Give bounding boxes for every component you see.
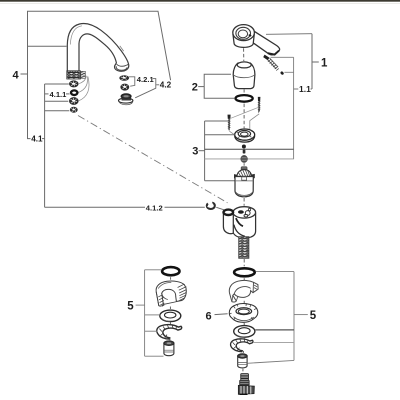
tick to ring A bbox=[45, 83, 69, 85]
label 4.2.1 bbox=[137, 75, 155, 84]
cartridge side ears bbox=[234, 174, 255, 179]
dash from 4.1.1 to o-ring B bbox=[66, 93, 70, 95]
label 1.1 bbox=[299, 84, 311, 94]
flange lower arc shading bbox=[237, 140, 245, 142]
horseshoe spacer left column (hatched) bbox=[156, 281, 186, 306]
washer right column bbox=[234, 326, 255, 338]
body side port opening bbox=[224, 210, 234, 215]
dash to label 4.2 bbox=[156, 84, 159, 86]
dashed axis shank to o-ring H bbox=[243, 259, 245, 266]
dome cap seam bbox=[233, 75, 254, 78]
label 5 right bbox=[310, 310, 317, 322]
pin bbox=[243, 150, 246, 154]
wire: label 4.1 to bracket 4.1 bbox=[42, 138, 45, 140]
wire light across (nut row) bbox=[205, 158, 294, 160]
o-ring under dome bbox=[236, 95, 253, 102]
cartridge body seam bbox=[235, 180, 253, 182]
handle ring inner ellipse bbox=[236, 27, 251, 39]
bracket 4 bottom corner to label 4.1 bbox=[28, 136, 31, 139]
label 3 bbox=[192, 146, 198, 158]
svg-text:6: 6 bbox=[206, 310, 212, 322]
bracket 5L bottom tick to cylinder bbox=[145, 355, 164, 357]
handle blade tip dark edge bbox=[268, 51, 279, 55]
wire screw left to flange bbox=[229, 131, 234, 134]
clip part 4.1.2 bbox=[207, 202, 215, 209]
cylinder seal holder right column bbox=[238, 354, 247, 368]
flange hole bbox=[241, 132, 249, 136]
wire clip to bracket 5R (light) bbox=[254, 341, 294, 343]
spout shading line left bbox=[70, 26, 82, 45]
tick washer to bracket 5L bbox=[145, 314, 161, 316]
spout end face inner lip bbox=[116, 66, 127, 70]
assembly arc from ring C bbox=[79, 77, 89, 101]
body elbow inner dark curve bbox=[236, 218, 243, 226]
wire screw right to flange bbox=[250, 114, 259, 131]
wire washer to bracket 5R (dark) bbox=[255, 329, 294, 331]
dashed axis clip to cylinder bbox=[169, 338, 171, 340]
screw 1.1 head bbox=[263, 55, 269, 61]
dash label 5L to bracket bbox=[136, 304, 145, 306]
label 6 bbox=[206, 310, 212, 322]
hose fitting barb top bbox=[241, 374, 249, 381]
wire screw head to bracket 1.1 bbox=[271, 56, 294, 58]
assembly arc from ring A bbox=[79, 74, 86, 83]
ring A (nut) bbox=[69, 80, 79, 87]
cartridge key slot bbox=[242, 177, 247, 180]
flange ring bottom rim bbox=[235, 136, 255, 143]
dashed axis clip to cylinder bbox=[242, 351, 244, 354]
dashed axis dome to o-ring bbox=[243, 89, 245, 93]
label 2 bbox=[192, 82, 198, 94]
cartridge dome hatched bbox=[237, 170, 252, 177]
label 4.2 bbox=[160, 81, 172, 90]
label 5 left bbox=[127, 300, 134, 312]
svg-text:2: 2 bbox=[192, 82, 198, 94]
label 2 dash bbox=[198, 86, 204, 88]
body top holes bbox=[238, 208, 251, 216]
tick to label 5R bbox=[294, 314, 308, 316]
label 4 bbox=[13, 69, 20, 81]
wire label 4.2.1 to bracket 4.2 bbox=[153, 78, 156, 80]
label 4 tick bbox=[21, 73, 28, 75]
ball detent bbox=[242, 145, 246, 149]
dome cap 2 top opening bbox=[237, 62, 251, 68]
washer left column bbox=[160, 310, 181, 321]
hose fitting collar bbox=[239, 380, 249, 386]
handle boss skirt bbox=[233, 34, 254, 48]
bracket 3 vertical bbox=[204, 121, 206, 181]
mounting nut 6 bbox=[229, 304, 257, 323]
spout thread band bbox=[67, 71, 86, 79]
bracket 5 right vertical bbox=[293, 272, 295, 361]
flange collar ellipse bbox=[238, 131, 250, 138]
assembly arc from o-ring B bbox=[79, 76, 88, 93]
dashed axis horseshoe to nut 6 bbox=[243, 301, 245, 304]
screw left shaft bbox=[228, 119, 231, 131]
svg-text:4.1: 4.1 bbox=[31, 135, 43, 144]
dashed axis horseshoe to washer bbox=[169, 307, 171, 310]
tick to cartridge bbox=[205, 180, 235, 182]
wire label 6 to nut bbox=[215, 313, 228, 316]
body top ellipse bbox=[233, 207, 256, 218]
tick to ring C bbox=[45, 100, 69, 102]
svg-text:5: 5 bbox=[310, 310, 317, 322]
spout tube silhouette bbox=[67, 23, 128, 71]
body side port cylinder bbox=[223, 212, 233, 233]
body elbow outer curve bbox=[234, 225, 245, 237]
cartridge stem bbox=[241, 166, 248, 172]
wire 4.1.2 horizontal left part bbox=[45, 206, 145, 208]
label 3 dash bbox=[199, 150, 205, 152]
body main cylinder bbox=[233, 213, 256, 238]
bracket 4.2.1 bbox=[129, 77, 135, 86]
svg-text:4.1.2: 4.1.2 bbox=[146, 203, 163, 212]
svg-text:1: 1 bbox=[321, 57, 328, 69]
flange face ticks bbox=[237, 131, 253, 138]
flange ring outer bbox=[235, 129, 255, 140]
wire connecting both screws bbox=[231, 107, 259, 118]
svg-text:3: 3 bbox=[192, 146, 198, 158]
dash-dot diagonal wire to body bbox=[78, 116, 228, 203]
tick o-ring H to bracket 5R bbox=[256, 271, 294, 273]
cartridge body bbox=[235, 177, 253, 197]
body shank threaded bbox=[239, 237, 249, 258]
o-ring H bbox=[234, 268, 255, 276]
label 4.1.1 bbox=[50, 90, 68, 99]
tick to flange bbox=[205, 134, 235, 136]
aerator G (4.2) bbox=[119, 94, 133, 105]
tick left o-ring to bracket 5L bbox=[145, 269, 162, 271]
c-clip left column bbox=[157, 325, 182, 339]
screw 1.1 tip bbox=[280, 71, 285, 76]
ring E (4.2.1 nut) bbox=[119, 75, 129, 81]
svg-text:1.1: 1.1 bbox=[299, 84, 311, 94]
tick clip to bracket 5L bbox=[145, 330, 158, 332]
screw left head bbox=[228, 115, 231, 119]
tick to label 1 bbox=[312, 61, 319, 63]
dashed axis washer to clip bbox=[243, 338, 245, 340]
small nut on axis bbox=[241, 155, 248, 163]
ring C (nut) bbox=[69, 97, 79, 105]
wire dark across (ball row) bbox=[205, 148, 294, 150]
tick to screw left bbox=[205, 120, 229, 122]
top border line bbox=[0, 0, 400, 2]
dashed axis handle to dome bbox=[243, 48, 245, 61]
o-ring B (4.1.1) bbox=[71, 90, 77, 95]
spout shading streak right bbox=[120, 46, 124, 51]
dashed axis cylinder to hose fitting bbox=[242, 369, 244, 373]
dashed axis cartridge to body bbox=[243, 198, 245, 206]
handle hole ellipse bbox=[238, 30, 247, 38]
label 1 bbox=[321, 57, 328, 69]
bracket 2 bbox=[204, 74, 234, 98]
label 4.1 bbox=[31, 135, 43, 144]
screw 1.1 shaft with threads bbox=[268, 58, 279, 70]
svg-text:4.2: 4.2 bbox=[160, 81, 172, 90]
tick to ring D bbox=[45, 110, 70, 112]
screw right head bbox=[258, 97, 261, 101]
cartridge body bottom ellipse bbox=[235, 192, 253, 196]
c-clip right column bbox=[231, 339, 253, 352]
svg-text:5: 5 bbox=[127, 300, 134, 312]
tick label 1.1 to bracket 1 bbox=[294, 88, 299, 90]
bracket 4.2 vertical + diagonal to aerator bbox=[135, 78, 156, 98]
tick/dash before label 4.1.1 bbox=[45, 93, 49, 95]
bracket 5R bottom tick to cylinder bbox=[247, 360, 294, 363]
dashed axis left o-ring to horseshoe bbox=[170, 277, 172, 281]
bracket 4.1 vertical bbox=[44, 84, 46, 207]
faint scan artifact stripe bbox=[0, 2, 400, 5]
svg-text:4: 4 bbox=[13, 69, 20, 81]
handle U1 lever blade bbox=[249, 30, 280, 55]
ring F (4.2.1 nut) bbox=[120, 84, 129, 91]
wire screw tip to bracket 1.1 bbox=[284, 71, 293, 73]
hose fitting body bbox=[238, 385, 254, 394]
screw right shaft bbox=[258, 101, 261, 113]
cylinder seal holder left column bbox=[164, 341, 174, 356]
dome cap 2 outer shell bbox=[233, 63, 255, 89]
dashed axis o-ring to horseshoe bbox=[243, 278, 245, 281]
svg-text:4.2.1: 4.2.1 bbox=[137, 75, 155, 84]
dashed axis o-ring to flange bbox=[243, 104, 245, 129]
handle boss top ring bbox=[233, 25, 255, 41]
bracket 1 vertical bbox=[311, 34, 313, 89]
bracket 5 left vertical bbox=[144, 270, 146, 356]
bracket for group 4 (top line + diagonal to 4.2) bbox=[28, 11, 171, 135]
ring D (small nut) bbox=[70, 107, 78, 113]
wire handle to bracket 1 bbox=[266, 33, 312, 36]
body bottom edge bbox=[233, 233, 239, 237]
spout end face top edge bbox=[117, 64, 129, 66]
tick from bracket 4 to spout bbox=[28, 45, 67, 47]
bracket 1.1 vertical bbox=[293, 57, 295, 159]
wire: clip 4.1.2 to body bbox=[216, 207, 224, 210]
wire 4.1.2 horizontal right part bbox=[165, 206, 205, 208]
o-ring left column bbox=[162, 267, 179, 275]
handle indicator dot bbox=[248, 34, 252, 37]
horseshoe spacer right column bbox=[229, 280, 258, 302]
dashed axis nut to cartridge bbox=[243, 163, 245, 166]
label 4.1.2 bbox=[146, 203, 163, 212]
dashed axis washer to clip bbox=[169, 322, 171, 324]
svg-text:4.1.1: 4.1.1 bbox=[50, 90, 68, 99]
dashed axis nut to washer bbox=[243, 323, 245, 325]
